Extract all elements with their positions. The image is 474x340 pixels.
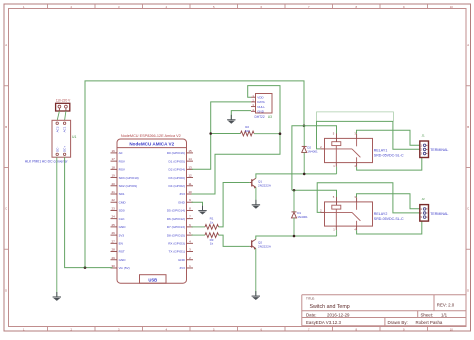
transistor Q2 — [250, 239, 256, 250]
junction R2/3V3 rail — [279, 132, 282, 135]
wire TB1 pin2 to U1 AC1 — [65, 111, 66, 120]
svg-text:29: 29 — [112, 256, 116, 260]
wire TB1 pin1 to U1 AC2 — [57, 111, 59, 120]
svg-text:D: D — [5, 288, 7, 292]
wire Q2 emitter — [255, 249, 257, 296]
svg-text:NodeMCU ESP8266-12E Amica V2: NodeMCU ESP8266-12E Amica V2 — [121, 134, 181, 138]
svg-text:1/1: 1/1 — [441, 312, 448, 317]
svg-text:D5 (GPIO14): D5 (GPIO14) — [167, 209, 185, 213]
svg-text:SRD-05VDC-SL-C: SRD-05VDC-SL-C — [374, 153, 404, 157]
svg-text:10: 10 — [450, 5, 454, 9]
resistor R3 — [205, 233, 219, 238]
svg-text:11: 11 — [188, 182, 191, 186]
ground at Q1 emitter — [252, 200, 260, 209]
svg-text:25: 25 — [112, 223, 116, 227]
wire supply to relay1 coil — [304, 126, 337, 134]
svg-text:RX (GPIO3): RX (GPIO3) — [168, 242, 185, 246]
svg-text:17: 17 — [112, 157, 116, 161]
wire D2 cathode — [303, 126, 305, 147]
svg-text:RST: RST — [119, 250, 125, 254]
svg-text:TERMINAL: TERMINAL — [430, 148, 448, 152]
svg-text:12: 12 — [188, 174, 192, 178]
connector J2 terminal — [420, 205, 429, 222]
wire R2 left lead — [212, 133, 241, 135]
junction supply/D2 — [303, 125, 306, 128]
module U2 pins and pin labels — [111, 149, 194, 270]
svg-text:3V3: 3V3 — [119, 233, 125, 237]
svg-text:Sheet:: Sheet: — [421, 312, 434, 317]
svg-text:D: D — [467, 288, 469, 292]
svg-text:USB: USB — [148, 278, 157, 283]
svg-text:RSV: RSV — [119, 159, 126, 163]
svg-text:3V3: 3V3 — [179, 266, 185, 270]
ground at DHT22 — [227, 115, 235, 124]
svg-text:10: 10 — [450, 327, 454, 331]
svg-text:J1: J1 — [422, 134, 426, 138]
svg-text:19: 19 — [112, 174, 116, 178]
wire DHT22 DATA to D2(GPIO4) — [192, 102, 252, 169]
wire relay1 pin3 to J1 top — [357, 130, 421, 145]
wire Q1 collector — [256, 174, 337, 178]
svg-text:B: B — [467, 125, 469, 129]
wire relay1 pin1 to Q1 collector — [336, 167, 338, 174]
svg-text:23: 23 — [112, 206, 116, 210]
svg-text:1N4001: 1N4001 — [297, 215, 308, 219]
svg-text:DC-: DC- — [55, 147, 59, 152]
svg-text:18: 18 — [112, 165, 116, 169]
svg-text:24: 24 — [112, 215, 116, 219]
AC-DC converter U1 body — [52, 120, 71, 157]
junction supply/D1 — [293, 189, 296, 192]
svg-text:CMD: CMD — [119, 200, 127, 204]
wire relay2 pin1 to Q2 collector — [336, 230, 338, 236]
wire DHT22 GND down — [231, 111, 251, 120]
svg-text:GND: GND — [119, 225, 127, 229]
wire relay1 pin4 to J1 bottom — [357, 158, 422, 170]
svg-text:CLK: CLK — [119, 217, 126, 221]
wire relay2 pin4 to J2 bottom — [357, 221, 422, 234]
svg-text:2N2222A: 2N2222A — [258, 184, 272, 188]
svg-text:TERMINAL: TERMINAL — [430, 212, 448, 216]
module U2 USB connector — [140, 275, 167, 284]
wire Q1 emitter — [255, 187, 257, 204]
svg-text:EN: EN — [119, 242, 123, 246]
wire GND pin9 — [192, 202, 203, 206]
connector TB1 (mains input) — [56, 103, 70, 111]
svg-text:A0: A0 — [119, 151, 123, 155]
junction at Vin node — [84, 266, 87, 269]
svg-text:22: 22 — [112, 198, 116, 202]
wire U1 DC+ down — [65, 157, 113, 267]
diode D2 — [302, 146, 307, 152]
wire 5V riser to supply rail — [85, 81, 304, 268]
svg-text:U1: U1 — [72, 135, 76, 139]
wire Q2 collector — [256, 236, 337, 239]
svg-text:15: 15 — [188, 149, 192, 153]
svg-text:D8 (GPIO15): D8 (GPIO15) — [167, 233, 185, 237]
module U2 NodeMCU body — [117, 139, 187, 283]
svg-text:2016-12-29: 2016-12-29 — [327, 312, 350, 317]
transistor Q1 — [250, 178, 256, 188]
svg-text:RELAY2: RELAY2 — [374, 212, 388, 216]
sensor U3 DHT22 body — [256, 94, 273, 114]
svg-text:3V3: 3V3 — [179, 192, 185, 196]
svg-text:28: 28 — [112, 248, 116, 252]
svg-text:SRD-05VDC-SL-C: SRD-05VDC-SL-C — [374, 217, 404, 221]
svg-text:21: 21 — [112, 190, 116, 194]
svg-text:NULL: NULL — [257, 105, 265, 109]
wire relay2 pin2 to J2 mid — [317, 183, 420, 213]
sensor U3 pins — [251, 94, 265, 114]
svg-text:1N4001: 1N4001 — [307, 149, 318, 153]
svg-text:Switch and Temp: Switch and Temp — [310, 304, 350, 310]
svg-text:110-220 V: 110-220 V — [56, 98, 71, 102]
svg-text:A: A — [467, 43, 469, 47]
ground at U1 DC- — [53, 292, 61, 301]
svg-text:13: 13 — [188, 165, 192, 169]
svg-text:26: 26 — [112, 231, 116, 235]
svg-text:2N2222A: 2N2222A — [258, 245, 272, 249]
svg-text:14: 14 — [188, 157, 192, 161]
svg-text:D3 (GPIO0): D3 (GPIO0) — [169, 176, 185, 180]
svg-text:Date:: Date: — [306, 312, 317, 317]
svg-text:DC+: DC+ — [63, 146, 67, 152]
svg-text:DATA: DATA — [257, 100, 265, 104]
wire R1 to Q1 base — [219, 183, 250, 227]
svg-text:SD1: SD1 — [119, 192, 125, 196]
wire D7 pin6 to R1 — [192, 226, 206, 228]
svg-text:20: 20 — [112, 182, 116, 186]
svg-text:NodeMCU AMICA V2: NodeMCU AMICA V2 — [129, 142, 174, 147]
resistor R2 — [241, 131, 255, 136]
svg-text:D1 (GPIO5): D1 (GPIO5) — [169, 159, 185, 163]
svg-text:C: C — [5, 207, 7, 211]
ground at pin9 — [198, 206, 206, 215]
relay RELAY2 — [320, 195, 372, 232]
svg-text:Vin (5V): Vin (5V) — [119, 266, 130, 270]
wire D2 anode — [303, 152, 305, 174]
wire R2 right lead — [254, 133, 280, 135]
svg-text:D0 (GPIO16): D0 (GPIO16) — [167, 151, 185, 155]
svg-text:U3: U3 — [268, 115, 272, 119]
diode D1 — [292, 212, 297, 218]
svg-text:10k: 10k — [245, 129, 250, 133]
svg-text:SD0: SD0 — [119, 209, 125, 213]
wire supply to relay2 coil — [292, 190, 337, 197]
wire D8 pin5 to R3 — [192, 234, 206, 236]
wire D1 anode — [293, 218, 295, 236]
junction D1/Q2 collector — [293, 235, 296, 238]
ground at Q2 emitter — [252, 291, 260, 300]
svg-text:RSV: RSV — [119, 168, 126, 172]
title block box — [302, 295, 466, 326]
svg-text:Robert Pasha: Robert Pasha — [416, 320, 443, 325]
wire relay2 pin3 to J2 top — [357, 194, 421, 209]
svg-text:D6 (GPIO12): D6 (GPIO12) — [167, 217, 185, 221]
svg-text:GND: GND — [178, 200, 186, 204]
svg-text:A: A — [5, 43, 7, 47]
svg-text:TX (GPIO1): TX (GPIO1) — [169, 250, 185, 254]
svg-text:RELAY1: RELAY1 — [374, 149, 388, 153]
wire relay1 coil aux — [317, 112, 394, 122]
wire U1 DC- to ground — [56, 157, 58, 297]
svg-text:B: B — [5, 125, 7, 129]
svg-text:1k: 1k — [210, 241, 214, 245]
title block text — [306, 296, 455, 325]
resistor R1 — [205, 225, 219, 230]
svg-text:D7 (GPIO13): D7 (GPIO13) — [167, 225, 185, 229]
svg-text:GND: GND — [178, 258, 186, 262]
svg-text:GND: GND — [257, 110, 265, 114]
svg-text:AC1: AC1 — [63, 126, 67, 132]
svg-text:EasyEDA V3.12.3: EasyEDA V3.12.3 — [306, 320, 341, 325]
junction D2/Q1 collector — [303, 173, 306, 176]
wire relay1 pin2 to J1 mid — [317, 121, 421, 149]
wire 3V3 pin10 to DHT22 VDD — [192, 86, 281, 194]
svg-text:J2: J2 — [422, 197, 426, 201]
svg-text:27: 27 — [112, 239, 116, 243]
wire supply branch down — [292, 126, 304, 191]
junction DATA/R2 — [209, 132, 212, 135]
svg-text:D4 (GPIO2): D4 (GPIO2) — [169, 184, 185, 188]
svg-text:16: 16 — [112, 149, 116, 153]
svg-text:10: 10 — [188, 190, 192, 194]
svg-text:SD2 (GPIO9): SD2 (GPIO9) — [119, 184, 137, 188]
relay RELAY1 — [320, 131, 372, 168]
wire R3 to Q2 base — [219, 235, 250, 246]
svg-text:SD3 (GPIO10): SD3 (GPIO10) — [119, 176, 139, 180]
svg-text:Drawn By:: Drawn By: — [388, 320, 408, 325]
svg-text:1k: 1k — [210, 220, 214, 224]
connector J1 terminal — [420, 141, 429, 158]
svg-text:HLK PM01 AC-DC converter: HLK PM01 AC-DC converter — [25, 160, 69, 164]
svg-text:D2 (GPIO4): D2 (GPIO4) — [169, 168, 185, 172]
svg-text:VDD: VDD — [257, 95, 264, 99]
svg-text:DHT22: DHT22 — [255, 115, 265, 119]
module U2 header separator — [117, 147, 187, 149]
wire D1 cathode — [293, 190, 295, 212]
svg-text:TITLE:: TITLE: — [306, 296, 315, 300]
svg-text:AC2: AC2 — [55, 126, 59, 132]
svg-text:GND: GND — [119, 258, 127, 262]
svg-text:C: C — [467, 207, 469, 211]
svg-text:REV: 2.0: REV: 2.0 — [437, 302, 455, 307]
